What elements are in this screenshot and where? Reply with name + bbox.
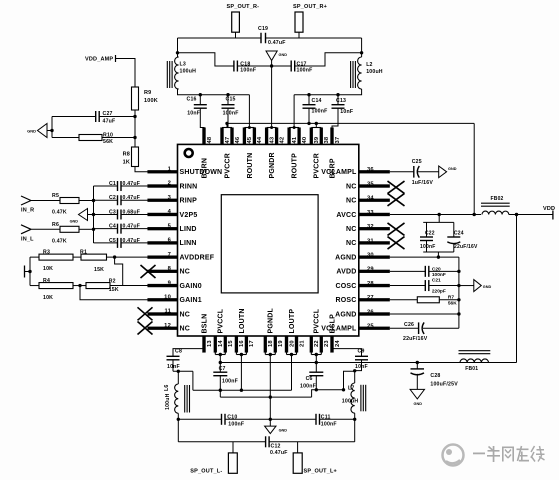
svg-text:38: 38 <box>324 136 330 143</box>
svg-text:GND: GND <box>483 285 492 289</box>
svg-text:56K: 56K <box>103 139 113 145</box>
svg-text:3: 3 <box>168 195 172 201</box>
svg-text:10nF: 10nF <box>340 109 353 115</box>
svg-text:100nF: 100nF <box>222 378 238 384</box>
svg-text:16: 16 <box>239 340 245 347</box>
svg-text:12: 12 <box>164 323 171 329</box>
svg-text:100nF: 100nF <box>420 244 435 250</box>
svg-text:20: 20 <box>289 340 295 347</box>
svg-text:22uF/16V: 22uF/16V <box>403 336 428 342</box>
svg-text:36: 36 <box>367 167 374 173</box>
svg-text:10nF: 10nF <box>355 364 368 370</box>
svg-text:IN_R: IN_R <box>21 208 34 214</box>
svg-text:0.47K: 0.47K <box>52 210 67 216</box>
svg-text:8: 8 <box>168 266 172 272</box>
svg-text:33: 33 <box>367 210 374 216</box>
svg-text:5: 5 <box>168 223 172 229</box>
svg-text:C20: C20 <box>432 266 441 272</box>
svg-text:C24: C24 <box>454 230 464 236</box>
svg-text:BSRP: BSRP <box>329 158 336 178</box>
svg-text:39: 39 <box>314 136 320 143</box>
svg-text:25: 25 <box>367 324 374 330</box>
svg-text:40: 40 <box>302 137 308 144</box>
svg-text:11: 11 <box>164 309 171 315</box>
svg-text:R1: R1 <box>80 250 87 256</box>
svg-text:C2: C2 <box>109 195 116 201</box>
svg-text:PGNDL: PGNDL <box>268 307 275 333</box>
svg-text:100K: 100K <box>144 98 158 104</box>
svg-text:NC: NC <box>346 226 357 233</box>
svg-text:21: 21 <box>299 340 305 347</box>
svg-text:100uH: 100uH <box>366 69 383 75</box>
svg-text:10K: 10K <box>43 266 53 272</box>
svg-text:PVCCL: PVCCL <box>314 308 321 333</box>
svg-text:45: 45 <box>247 136 253 143</box>
svg-text:6: 6 <box>168 238 172 244</box>
svg-text:C19: C19 <box>258 26 268 32</box>
svg-text:SP_OUT_R+: SP_OUT_R+ <box>293 4 327 10</box>
svg-text:43: 43 <box>269 136 275 143</box>
svg-text:PVCCL: PVCCL <box>218 308 225 333</box>
svg-text:100uH: 100uH <box>342 399 359 405</box>
svg-text:AGND: AGND <box>335 254 356 261</box>
svg-text:NC: NC <box>180 326 191 333</box>
svg-text:C28: C28 <box>430 373 440 379</box>
svg-text:22: 22 <box>314 340 320 347</box>
svg-text:220pF: 220pF <box>432 289 446 295</box>
svg-text:COSC: COSC <box>335 283 356 290</box>
svg-text:0.47uF: 0.47uF <box>123 224 141 230</box>
svg-text:10nF: 10nF <box>187 110 200 116</box>
svg-text:ROUTN: ROUTN <box>247 153 254 179</box>
svg-text:34: 34 <box>367 196 374 202</box>
svg-text:24: 24 <box>335 340 341 347</box>
svg-text:R10: R10 <box>103 133 113 139</box>
svg-text:15: 15 <box>228 340 234 347</box>
svg-text:VDD_AMP: VDD_AMP <box>85 57 113 63</box>
svg-text:RINN: RINN <box>180 183 198 190</box>
svg-text:29: 29 <box>367 267 374 273</box>
svg-text:1: 1 <box>168 167 172 173</box>
svg-text:C18: C18 <box>240 61 250 67</box>
svg-text:R7: R7 <box>448 295 454 301</box>
svg-text:100nF: 100nF <box>297 68 313 74</box>
svg-text:L7: L7 <box>348 386 354 392</box>
svg-text:100nF: 100nF <box>228 421 244 427</box>
svg-text:GND: GND <box>448 167 457 171</box>
svg-text:L6: L6 <box>164 385 170 391</box>
svg-text:C5: C5 <box>109 238 116 244</box>
svg-text:0.47uF: 0.47uF <box>268 40 286 46</box>
svg-text:C11: C11 <box>321 414 331 420</box>
svg-text:LOUTP: LOUTP <box>289 309 296 334</box>
svg-text:R4: R4 <box>43 278 50 284</box>
svg-text:C14: C14 <box>312 98 322 104</box>
svg-text:LIND: LIND <box>180 226 197 233</box>
svg-text:NC: NC <box>346 183 357 190</box>
svg-text:GAIN1: GAIN1 <box>180 297 202 304</box>
svg-text:46: 46 <box>235 136 241 143</box>
svg-text:1K: 1K <box>123 160 130 166</box>
svg-text:2: 2 <box>168 181 171 187</box>
svg-text:C7: C7 <box>219 366 226 372</box>
svg-text:7: 7 <box>168 252 171 258</box>
svg-text:18: 18 <box>268 340 274 347</box>
svg-text:C22: C22 <box>425 230 435 236</box>
svg-text:GND: GND <box>414 402 423 406</box>
svg-text:0.47uF: 0.47uF <box>123 181 141 187</box>
svg-text:15K: 15K <box>94 267 104 273</box>
svg-text:AVDDREF: AVDDREF <box>180 254 215 261</box>
svg-text:100nF: 100nF <box>321 421 337 427</box>
svg-text:R3: R3 <box>43 250 50 256</box>
svg-text:23: 23 <box>324 340 330 347</box>
svg-text:VCLAMPL: VCLAMPL <box>321 326 357 333</box>
svg-text:C26: C26 <box>404 322 414 328</box>
svg-text:31: 31 <box>367 238 374 244</box>
svg-text:BSLP: BSLP <box>329 314 336 334</box>
svg-text:C10: C10 <box>227 414 237 420</box>
svg-text:NC: NC <box>180 269 191 276</box>
svg-text:100nF: 100nF <box>240 68 256 74</box>
svg-text:17: 17 <box>249 340 255 347</box>
svg-text:44: 44 <box>257 136 263 143</box>
svg-text:SP_OUT_R-: SP_OUT_R- <box>227 4 260 10</box>
svg-text:C27: C27 <box>103 111 113 117</box>
svg-text:BSRN: BSRN <box>201 158 208 179</box>
svg-text:R5: R5 <box>52 193 59 199</box>
svg-text:GND: GND <box>279 53 288 57</box>
svg-text:100uF/25V: 100uF/25V <box>430 382 458 388</box>
svg-text:48: 48 <box>207 136 213 143</box>
svg-text:C6: C6 <box>306 376 313 382</box>
svg-text:28: 28 <box>367 281 374 287</box>
svg-text:1uF/16V: 1uF/16V <box>412 180 434 186</box>
svg-text:37: 37 <box>335 137 341 144</box>
svg-text:GND: GND <box>70 220 79 224</box>
svg-text:100nF: 100nF <box>432 272 446 278</box>
svg-text:100uH: 100uH <box>165 393 171 410</box>
svg-text:ROSC: ROSC <box>335 297 356 304</box>
svg-text:C13: C13 <box>336 98 346 104</box>
svg-text:19: 19 <box>278 340 284 347</box>
svg-text:0.47K: 0.47K <box>52 238 67 244</box>
svg-text:C15: C15 <box>226 96 236 102</box>
svg-text:C16: C16 <box>187 96 197 102</box>
svg-text:22uF/16V: 22uF/16V <box>454 244 478 250</box>
svg-text:C4: C4 <box>109 224 116 230</box>
svg-text:C17: C17 <box>297 61 307 67</box>
svg-text:0.47uF: 0.47uF <box>270 450 288 456</box>
svg-text:100nF: 100nF <box>300 384 316 390</box>
svg-text:LINN: LINN <box>180 240 197 247</box>
svg-text:32: 32 <box>367 224 374 230</box>
svg-text:41: 41 <box>292 136 298 143</box>
svg-text:BSLN: BSLN <box>201 314 208 334</box>
svg-text:100uH: 100uH <box>180 69 197 75</box>
svg-text:4: 4 <box>168 209 172 215</box>
svg-text:LOUTN: LOUTN <box>239 308 246 333</box>
svg-text:R6: R6 <box>52 222 59 228</box>
svg-text:ROUTP: ROUTP <box>292 153 299 179</box>
svg-text:10: 10 <box>164 294 171 300</box>
svg-text:NC: NC <box>180 311 191 318</box>
svg-text:SP_OUT_L+: SP_OUT_L+ <box>304 468 337 474</box>
svg-text:35: 35 <box>367 181 374 187</box>
svg-text:C8: C8 <box>175 348 182 354</box>
svg-text:PVCCR: PVCCR <box>224 153 231 179</box>
svg-text:47: 47 <box>225 137 231 144</box>
svg-text:100nF: 100nF <box>312 108 328 114</box>
svg-text:C21: C21 <box>432 278 441 284</box>
svg-text:RINP: RINP <box>180 198 198 205</box>
svg-text:V2P5: V2P5 <box>180 212 198 219</box>
svg-text:C3: C3 <box>109 209 116 215</box>
svg-text:C12: C12 <box>271 443 281 449</box>
svg-text:47uF: 47uF <box>103 119 116 125</box>
svg-text:27: 27 <box>367 295 374 301</box>
svg-text:C1: C1 <box>109 181 116 187</box>
svg-text:IN_L: IN_L <box>21 236 34 242</box>
svg-text:R2: R2 <box>109 279 116 285</box>
svg-text:10K: 10K <box>43 295 53 301</box>
svg-text:SP_OUT_L-: SP_OUT_L- <box>190 468 222 474</box>
svg-text:C25: C25 <box>412 159 422 165</box>
svg-text:R9: R9 <box>144 90 151 96</box>
svg-text:L3: L3 <box>180 62 186 68</box>
svg-text:100nF: 100nF <box>223 110 239 116</box>
svg-text:AGND: AGND <box>335 311 356 318</box>
svg-text:10nF: 10nF <box>167 364 180 370</box>
svg-text:9: 9 <box>168 280 172 286</box>
svg-text:PGNDR: PGNDR <box>269 152 276 178</box>
svg-text:42: 42 <box>279 137 285 144</box>
svg-text:FB02: FB02 <box>491 196 504 202</box>
svg-text:15K: 15K <box>109 287 119 293</box>
svg-text:VCLAMPL: VCLAMPL <box>321 169 357 176</box>
svg-text:GND: GND <box>279 429 288 433</box>
svg-text:AVCC: AVCC <box>336 212 356 219</box>
svg-text:NC: NC <box>346 240 357 247</box>
svg-text:NC: NC <box>346 198 357 205</box>
svg-text:GND: GND <box>27 128 36 133</box>
svg-text:AVDD: AVDD <box>336 269 356 276</box>
svg-text:26: 26 <box>367 309 374 315</box>
svg-text:FB01: FB01 <box>465 366 478 372</box>
svg-text:PVCCR: PVCCR <box>314 153 321 179</box>
svg-text:14: 14 <box>218 340 224 347</box>
svg-text:0.47uF: 0.47uF <box>123 195 141 201</box>
svg-text:0.68uF: 0.68uF <box>123 209 141 215</box>
svg-text:GAIN0: GAIN0 <box>180 283 202 290</box>
svg-text:56K: 56K <box>448 301 457 307</box>
svg-text:C9: C9 <box>358 348 365 354</box>
svg-text:0.47uF: 0.47uF <box>123 238 141 244</box>
svg-text:R8: R8 <box>123 152 130 158</box>
svg-text:L2: L2 <box>366 62 372 68</box>
svg-text:13: 13 <box>207 340 213 347</box>
svg-text:30: 30 <box>367 253 374 259</box>
